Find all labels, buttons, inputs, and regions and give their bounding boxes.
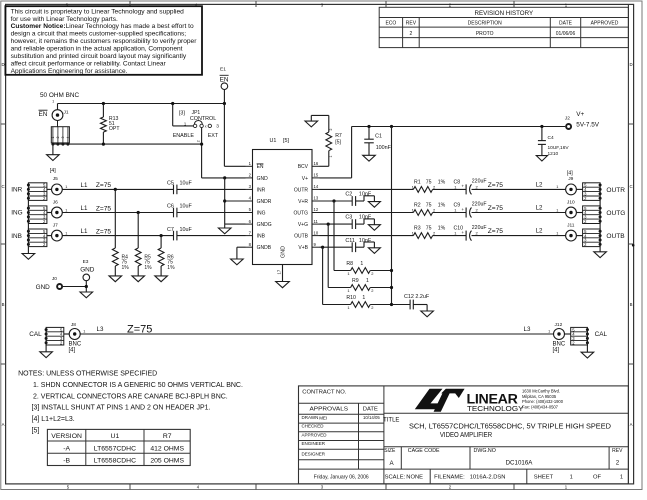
label 50 OHM BNC: [40, 92, 79, 99]
svg-text:J0: J0: [52, 276, 57, 282]
svg-text:Z=75: Z=75: [488, 182, 504, 189]
connector J12 BNC: [548, 322, 571, 353]
svg-text:NOTES: UNLESS OTHERWISE SPECI: NOTES: UNLESS OTHERWISE SPECIFIED: [18, 371, 157, 378]
title block frame: [299, 386, 629, 484]
note ref 4 at J9: [567, 171, 573, 177]
svg-text:1%: 1%: [438, 202, 446, 208]
svg-text:1630 McCarthy Blvd.: 1630 McCarthy Blvd.: [522, 388, 560, 393]
svg-text:SHEET: SHEET: [534, 474, 554, 480]
svg-text:J8: J8: [71, 322, 76, 328]
svg-text:Friday, January 06, 2006: Friday, January 06, 2006: [314, 475, 369, 481]
svg-text:1: 1: [65, 231, 67, 235]
svg-text:14: 14: [314, 184, 319, 189]
svg-text:Z=75: Z=75: [488, 205, 504, 212]
svg-text:GND: GND: [36, 284, 51, 291]
svg-text:CAGE CODE: CAGE CODE: [408, 448, 440, 454]
connector J8 BNC: [64, 322, 86, 353]
svg-text:Customer Notice:Linear Technol: Customer Notice:Linear Technology has ma…: [11, 23, 194, 30]
V+ vertical distribution: [390, 125, 393, 305]
proprietary notice text: [11, 8, 198, 74]
svg-text:1: 1: [556, 208, 558, 212]
svg-text:C11: C11: [345, 238, 355, 244]
svg-text:R2: R2: [414, 202, 421, 208]
svg-text:GNDR: GNDR: [257, 199, 272, 205]
capacitor C4: [536, 125, 569, 161]
resistor R7: [320, 115, 342, 166]
svg-text:Z=75: Z=75: [96, 205, 112, 212]
svg-text:1: 1: [65, 185, 67, 189]
svg-text:[4]: [4]: [50, 168, 56, 174]
svg-text:1: 1: [65, 208, 67, 212]
svg-text:L2: L2: [536, 181, 543, 188]
svg-text:DC1016A: DC1016A: [506, 460, 534, 467]
svg-text:affect circuit performance or: affect circuit performance or reliabilit…: [11, 60, 167, 67]
svg-text:OUTB: OUTB: [294, 234, 309, 240]
label L3 right: [524, 326, 531, 333]
svg-text:11: 11: [314, 219, 319, 224]
svg-text:INR: INR: [257, 187, 266, 193]
capacitor C12: [392, 294, 434, 317]
svg-text:2: 2: [56, 136, 60, 138]
svg-text:substitution and printed circu: substitution and printed circuit board l…: [11, 53, 187, 60]
svg-text:OUTR: OUTR: [294, 187, 309, 193]
svg-text:C: C: [629, 184, 632, 189]
wire V+ pin15 to rail: [320, 127, 566, 178]
svg-text:C6: C6: [167, 204, 174, 210]
label OUTR: [606, 187, 625, 194]
label Z=75 OUTG row: [488, 204, 543, 212]
label Z=75 OUTB row: [488, 228, 543, 236]
svg-text:4: 4: [66, 136, 70, 138]
svg-text:TITLE: TITLE: [383, 417, 399, 423]
note ref 4 at J5: [50, 168, 56, 174]
capacitor C11: [320, 238, 381, 254]
svg-text:C: C: [1, 184, 4, 189]
svg-text:CONTROL: CONTROL: [190, 116, 216, 122]
resistor R5: [132, 211, 152, 282]
svg-text:Applications Engineering for a: Applications Engineering for assistance.: [11, 68, 128, 75]
svg-text:J7: J7: [53, 222, 58, 228]
svg-text:Z=75: Z=75: [96, 228, 112, 235]
svg-text:REVISION HISTORY: REVISION HISTORY: [475, 10, 534, 17]
svg-text:1: 1: [570, 474, 573, 480]
svg-text:17: 17: [276, 269, 281, 274]
U1 GND pin 17: [276, 246, 290, 288]
svg-text:GND: GND: [280, 246, 286, 258]
test point E3 GND: [80, 259, 95, 292]
svg-text:V+: V+: [302, 176, 308, 182]
svg-text:R8: R8: [346, 261, 353, 267]
svg-text:10UF,16V: 10UF,16V: [548, 145, 570, 151]
svg-text:INB: INB: [11, 233, 22, 240]
svg-text:OUTB: OUTB: [606, 233, 625, 240]
svg-text:VIDEO AMPLIFIER: VIDEO AMPLIFIER: [440, 430, 492, 439]
svg-text:1: 1: [52, 100, 54, 104]
ground at J0: [80, 292, 93, 298]
svg-text:1: 1: [362, 295, 365, 301]
svg-text:BNC: BNC: [69, 341, 82, 347]
svg-text:EXT: EXT: [208, 133, 219, 139]
svg-text:GNDB: GNDB: [257, 245, 272, 251]
svg-text:50 OHM BNC: 50 OHM BNC: [40, 92, 79, 99]
svg-text:LT6558CDHC: LT6558CDHC: [94, 458, 136, 465]
svg-text:L3: L3: [97, 326, 104, 333]
svg-text:APPROVALS: APPROVALS: [310, 407, 349, 413]
ground for GNDB pin 8: [231, 247, 246, 265]
svg-text:1: 1: [329, 155, 333, 157]
svg-text:2: 2: [329, 128, 333, 130]
resistor R2: [320, 202, 446, 215]
svg-text:DATE: DATE: [363, 407, 378, 413]
svg-text:A: A: [630, 422, 633, 427]
svg-text:OUTG: OUTG: [294, 210, 309, 216]
svg-text:1%: 1%: [438, 226, 446, 232]
revision history table: [379, 7, 628, 47]
svg-text:L1: L1: [81, 228, 88, 235]
svg-text:B: B: [630, 302, 633, 307]
svg-text:FILENAME:: FILENAME:: [434, 474, 465, 480]
svg-text:01/06/06: 01/06/06: [556, 31, 576, 37]
connector J0 GND: [36, 276, 88, 291]
svg-text:2. VERTICAL CONNECTORS ARE CAN: 2. VERTICAL CONNECTORS ARE CANARE BCJ-BP…: [33, 394, 228, 401]
svg-text:J9: J9: [568, 176, 573, 182]
svg-text:SCH, LT6557CDHC/LT6558CDHC, 5V: SCH, LT6557CDHC/LT6558CDHC, 5V TRIPLE HI…: [409, 421, 611, 430]
terminal J2 V+: [565, 111, 600, 129]
svg-text:OUTR: OUTR: [606, 187, 625, 194]
svg-text:and reliable operation in the: and reliable operation in the actual app…: [11, 46, 183, 53]
connector J10 shield box: [583, 206, 602, 224]
border zone letters left: [1, 62, 4, 427]
svg-text:DESCRIPTION: DESCRIPTION: [468, 21, 503, 27]
label Z=75 OUTR row: [488, 181, 543, 189]
connector J9 shield box: [583, 183, 602, 201]
connector J8 shield box: [45, 327, 64, 345]
svg-text:205 OHMS: 205 OHMS: [150, 458, 184, 465]
version table text: [51, 433, 184, 464]
svg-text:1: 1: [556, 185, 558, 189]
svg-text:10uF: 10uF: [180, 204, 193, 210]
svg-text:75: 75: [426, 179, 432, 185]
svg-text:DWG.NO: DWG.NO: [474, 448, 496, 454]
svg-text:10nF: 10nF: [359, 192, 372, 198]
svg-text:R10: R10: [346, 295, 356, 301]
svg-text:C2: C2: [345, 192, 352, 198]
J12 shield ground: [581, 330, 594, 358]
svg-text:EN: EN: [257, 164, 264, 170]
input shield ground bus: [22, 189, 35, 259]
connector J1 EN BNC: [39, 100, 69, 121]
capacitor C5: [167, 181, 246, 195]
svg-text:VERSION: VERSION: [51, 433, 82, 440]
svg-text:15: 15: [314, 173, 319, 178]
svg-text:[3]: [3]: [179, 111, 185, 117]
svg-text:1: 1: [548, 330, 550, 334]
svg-text:C7: C7: [167, 227, 174, 233]
connector J10 BNC: [556, 199, 582, 218]
resistor R10: [323, 247, 394, 310]
label ING: [11, 210, 22, 217]
connector J12 shield box: [571, 327, 589, 345]
svg-text:CAL: CAL: [29, 331, 42, 338]
svg-text:SIZE: SIZE: [384, 448, 396, 454]
U1 GND pins vertical bus: [218, 176, 245, 234]
svg-text:1: 1: [556, 231, 558, 235]
svg-text:[4]: [4]: [69, 348, 76, 354]
svg-text:U1: U1: [270, 138, 277, 144]
svg-text:DATE: DATE: [559, 21, 573, 27]
label Z=75 CAL: [127, 324, 152, 336]
svg-text:V+B: V+B: [298, 245, 308, 251]
resistor R1: [320, 179, 446, 192]
svg-text:C5: C5: [167, 181, 174, 187]
label L1 Z=75 row R: [81, 182, 112, 189]
svg-text:100nF: 100nF: [376, 145, 392, 151]
svg-text:Z=75: Z=75: [96, 182, 112, 189]
svg-text:-A: -A: [63, 445, 70, 452]
svg-text:10/14/05: 10/14/05: [363, 415, 380, 420]
svg-text:ENGINEER: ENGINEER: [302, 441, 326, 446]
svg-text:75: 75: [426, 202, 432, 208]
J8 shield ground: [40, 330, 53, 358]
svg-text:J5: J5: [53, 176, 58, 182]
border zone ticks sides: [1, 124, 635, 364]
svg-text:J10: J10: [567, 199, 575, 205]
svg-text:DESIGNER: DESIGNER: [302, 452, 326, 457]
svg-text:12: 12: [314, 207, 319, 212]
svg-text:BCV: BCV: [298, 164, 309, 170]
svg-text:2: 2: [410, 31, 413, 37]
svg-text:A: A: [2, 422, 5, 427]
svg-text:3: 3: [216, 123, 219, 129]
svg-text:1%: 1%: [144, 265, 152, 271]
svg-text:GNDG: GNDG: [257, 222, 272, 228]
capacitor C9: [433, 202, 566, 218]
svg-text:CHECKED: CHECKED: [302, 424, 325, 429]
connector J5 shield box: [27, 183, 47, 201]
output shield ground bus: [594, 185, 607, 258]
svg-text:J2: J2: [565, 116, 570, 122]
svg-text:OF: OF: [593, 474, 602, 480]
svg-text:1: 1: [83, 330, 85, 334]
svg-text:GND: GND: [80, 267, 95, 274]
test point E1 EN: [220, 67, 229, 106]
svg-text:C12 2.2uF: C12 2.2uF: [404, 294, 430, 300]
svg-text:Z=75: Z=75: [488, 228, 504, 235]
svg-text:NONE: NONE: [406, 474, 423, 480]
wire JP1 pin1 to EN rail: [171, 102, 193, 126]
svg-text:10uF: 10uF: [180, 227, 193, 233]
connector J11 BNC: [556, 222, 582, 241]
title text: [383, 417, 623, 480]
label L1 Z=75 row B: [81, 228, 112, 235]
svg-text:SCALE:: SCALE:: [385, 474, 406, 480]
svg-text:C1: C1: [375, 133, 382, 139]
svg-text:10uF: 10uF: [180, 181, 193, 187]
svg-text:10: 10: [314, 230, 319, 235]
svg-text:75: 75: [426, 226, 432, 232]
svg-text:13: 13: [314, 196, 319, 201]
svg-text:BNC: BNC: [553, 341, 566, 347]
wire EN rail: [58, 103, 225, 105]
capacitor C6: [167, 204, 246, 218]
svg-text:EN: EN: [220, 76, 229, 83]
svg-text:[4]: [4]: [567, 171, 573, 177]
svg-text:1. SHDN CONNECTOR IS A GENERIC: 1. SHDN CONNECTOR IS A GENERIC 50 OHMS V…: [33, 382, 243, 389]
svg-text:16: 16: [314, 161, 319, 166]
svg-text:L3: L3: [524, 326, 531, 333]
inner frame right double line: [627, 4, 629, 484]
label CAL left: [29, 331, 42, 338]
svg-text:DRAWN: DRAWN: [302, 415, 319, 420]
svg-text:V+R: V+R: [298, 199, 308, 205]
svg-text:TECHNOLOGY: TECHNOLOGY: [467, 404, 524, 413]
border zone numbers top: [66, 3, 568, 8]
svg-text:CONTRACT NO.: CONTRACT NO.: [302, 389, 346, 395]
connector J6 BNC: [47, 199, 173, 218]
svg-text:C3: C3: [345, 215, 352, 221]
svg-text:R9: R9: [352, 278, 359, 284]
svg-text:1%: 1%: [438, 179, 446, 185]
label INR: [11, 187, 22, 194]
svg-text:R7: R7: [335, 133, 342, 139]
svg-text:Fax: (408)434-0507: Fax: (408)434-0507: [522, 405, 559, 410]
svg-text:CAL: CAL: [595, 331, 608, 338]
J1 shield box: [51, 121, 70, 146]
svg-text:for use with Linear Technology: for use with Linear Technology parts.: [11, 16, 118, 23]
svg-text:ENABLE: ENABLE: [173, 133, 195, 139]
svg-text:5V-7.5V: 5V-7.5V: [576, 121, 599, 128]
svg-text:E1: E1: [220, 67, 226, 73]
svg-text:design a circuit that meets cu: design a circuit that meets customer-sup…: [11, 31, 187, 38]
svg-text:1: 1: [51, 136, 55, 138]
svg-text:REV: REV: [612, 448, 623, 454]
resistor R4: [109, 188, 129, 282]
wire JP1 pin2 to GND pin of U1: [196, 128, 245, 178]
resistor R13: [101, 102, 121, 146]
Linear Technology logo: [415, 388, 564, 413]
svg-text:EN: EN: [39, 111, 48, 118]
resistor R8: [334, 201, 393, 276]
svg-text:L2: L2: [536, 228, 543, 235]
svg-text:Milpitas, CA 95035: Milpitas, CA 95035: [522, 394, 557, 399]
svg-text:INR: INR: [11, 187, 22, 194]
svg-text:U1: U1: [111, 433, 120, 440]
svg-text:Z=75: Z=75: [127, 324, 152, 336]
svg-text:412 OHMS: 412 OHMS: [150, 445, 184, 452]
svg-text:D: D: [1, 62, 4, 67]
svg-text:L1: L1: [81, 182, 88, 189]
connector J5 BNC: [47, 176, 173, 195]
connector J7 shield box: [27, 229, 47, 247]
connector J11 shield box: [583, 229, 602, 247]
revision history text: [385, 10, 618, 37]
resistor R3: [320, 226, 446, 239]
svg-text:APPROVED: APPROVED: [591, 21, 619, 27]
svg-text:1: 1: [366, 278, 369, 284]
svg-text:V+: V+: [576, 111, 584, 118]
label L3 left: [97, 326, 104, 333]
label INB: [11, 233, 22, 240]
connector J7 BNC: [47, 222, 173, 241]
svg-text:however, it remains the custom: however, it remains the customers respon…: [11, 38, 198, 45]
connector J6 shield box: [27, 206, 47, 224]
svg-text:PROTO: PROTO: [476, 31, 494, 37]
ground at R7 top: [305, 115, 329, 127]
connector J9 BNC: [556, 176, 582, 195]
svg-text:L1: L1: [81, 205, 88, 212]
label OUTB: [606, 233, 625, 240]
op-amp U1 LT6557/LT6558: [246, 138, 320, 265]
svg-text:J12: J12: [555, 322, 563, 328]
label OUTG: [606, 210, 625, 217]
svg-text:220uF: 220uF: [472, 225, 487, 231]
svg-text:[5]: [5]: [283, 138, 289, 144]
proprietary notice box: [5, 6, 202, 75]
svg-text:1%: 1%: [122, 265, 130, 271]
svg-text:1210: 1210: [548, 151, 559, 157]
capacitor C2: [320, 192, 381, 208]
svg-text:220uF: 220uF: [472, 179, 487, 185]
svg-text:REV: REV: [406, 21, 417, 27]
svg-text:220uF: 220uF: [472, 202, 487, 208]
capacitor C1: [363, 125, 392, 161]
svg-text:OPT: OPT: [109, 126, 120, 132]
svg-text:R1: R1: [414, 179, 421, 185]
svg-text:1: 1: [360, 261, 363, 267]
jumper JP1 CONTROL: [173, 110, 220, 139]
svg-text:1016A-2.DSN: 1016A-2.DSN: [470, 474, 506, 480]
svg-text:[3] INSTALL SHUNT AT PINS 1 A: [3] INSTALL SHUNT AT PINS 1 AND 2 ON HEA…: [32, 404, 211, 411]
svg-text:[5]: [5]: [32, 428, 40, 435]
svg-text:OUTG: OUTG: [606, 210, 625, 217]
svg-text:3: 3: [61, 136, 65, 138]
svg-text:[4] L1+L2=L3.: [4] L1+L2=L3.: [32, 416, 75, 423]
svg-text:C4: C4: [548, 135, 554, 141]
capacitor C3: [320, 215, 381, 231]
border zone letters right: [629, 62, 632, 427]
wire J1 ground bus: [53, 143, 202, 145]
svg-text:ECO: ECO: [385, 21, 396, 27]
wire CAL row: [80, 333, 553, 335]
version table note 5: [47, 429, 190, 465]
resistor R9: [328, 224, 393, 293]
border zone ticks bottom: [130, 484, 514, 490]
svg-text:2: 2: [196, 140, 200, 142]
svg-text:[5]: [5]: [335, 140, 341, 146]
svg-text:ING: ING: [11, 210, 22, 217]
svg-text:LT6557CDHC: LT6557CDHC: [94, 445, 136, 452]
svg-text:L2: L2: [536, 204, 543, 211]
svg-text:[4]: [4]: [553, 348, 560, 354]
svg-text:V+G: V+G: [298, 222, 308, 228]
svg-text:APPROVED: APPROVED: [302, 432, 328, 437]
svg-text:GND: GND: [257, 176, 269, 182]
notes text: [18, 371, 243, 435]
svg-text:2: 2: [616, 460, 620, 467]
svg-text:J11: J11: [567, 222, 575, 228]
svg-text:10nF: 10nF: [359, 215, 372, 221]
svg-text:J1: J1: [64, 110, 69, 116]
svg-text:Phone: (408)432-1900: Phone: (408)432-1900: [522, 399, 564, 404]
svg-text:INB: INB: [257, 234, 266, 240]
svg-text:R3: R3: [414, 226, 421, 232]
svg-text:1%: 1%: [167, 265, 175, 271]
border zone ticks top: [130, 1, 514, 7]
svg-text:ING: ING: [257, 210, 266, 216]
svg-text:x: x: [205, 124, 207, 128]
svg-text:J6: J6: [53, 199, 58, 205]
wire EN to U1 pin1: [224, 104, 245, 167]
